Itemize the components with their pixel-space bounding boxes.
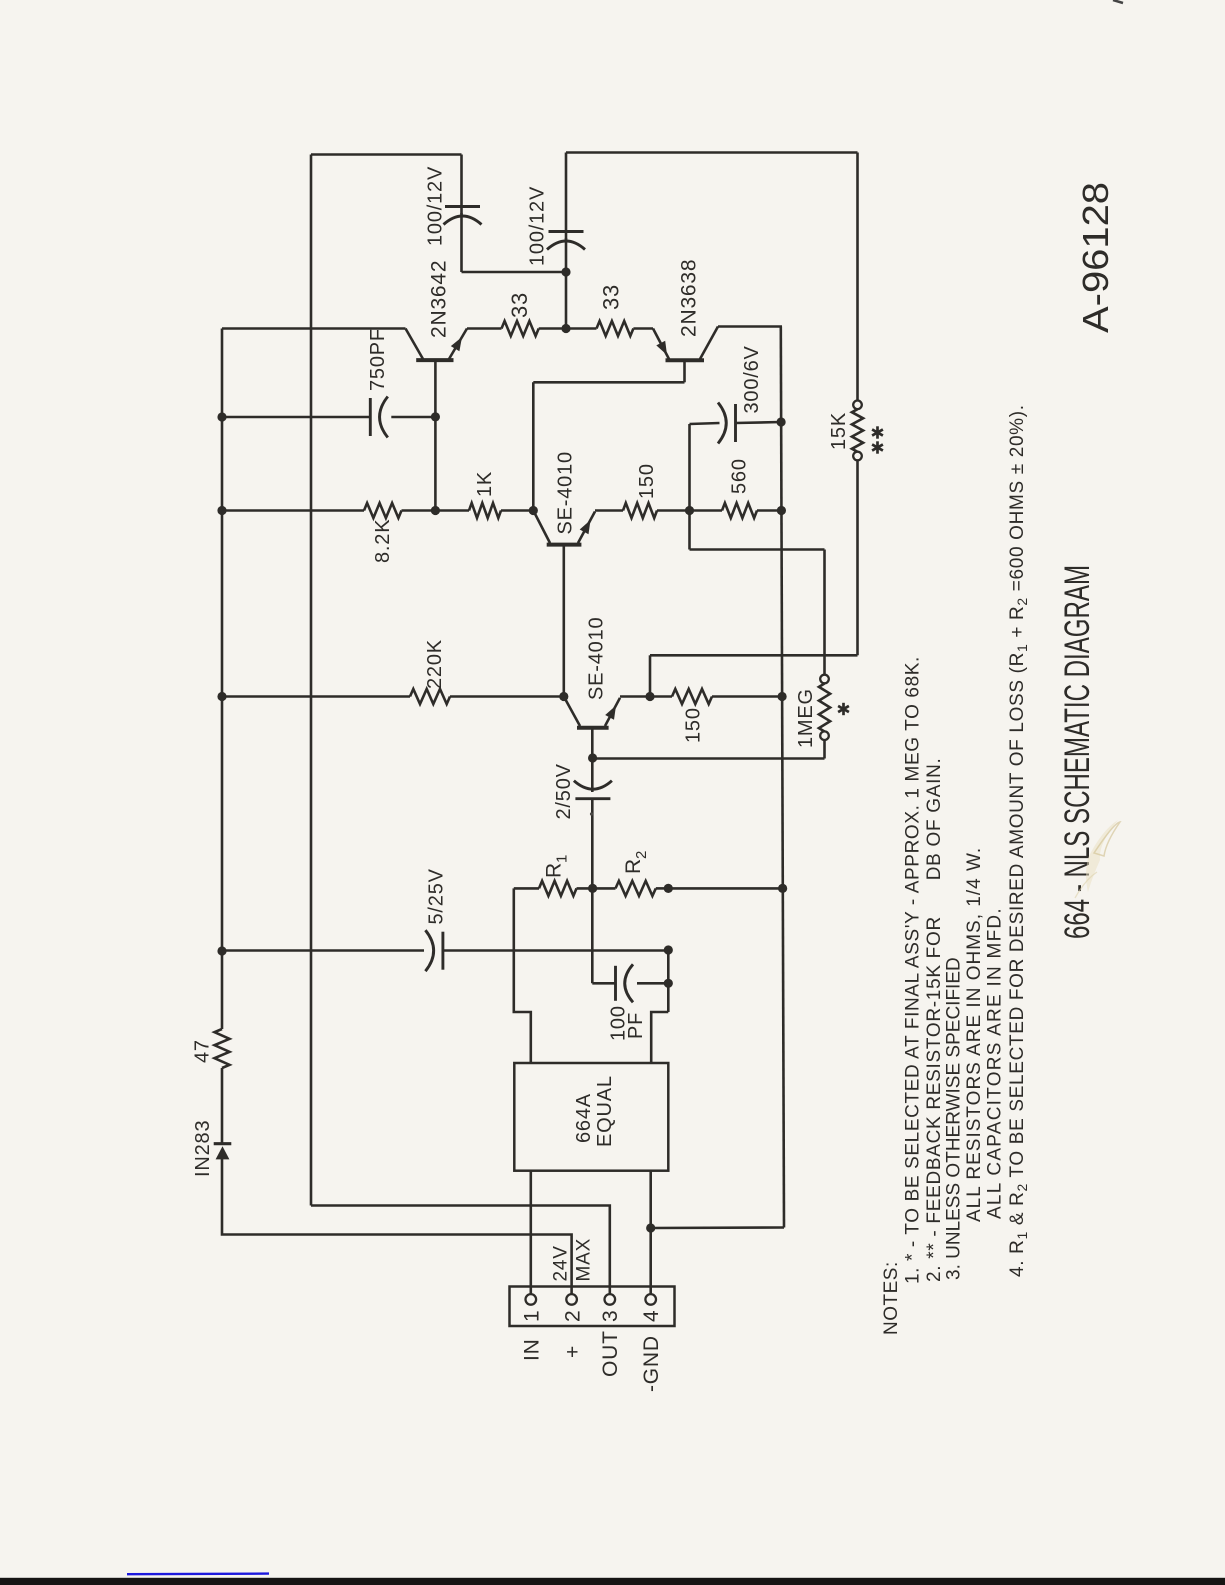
svg-text:1K: 1K [474,471,496,497]
wire +V tap y=510.5 to 8.2K [222,509,364,512]
capacitor 300/6V [734,404,737,442]
wire +V from pin 2 [221,951,224,1029]
pin 4 terminal [645,1294,656,1305]
node 1K left [431,506,440,515]
svg-text:OUT: OUT [599,1330,622,1377]
node R1/R2 junction (2/50V) [588,884,597,893]
wire R-network to attenuator right lead [667,950,670,1012]
svg-text:5/25V: 5/25V [426,868,448,924]
wire attenuator left lead (from R1) [514,888,531,1063]
wire node to 1K [435,509,469,512]
wire 47 to diode [221,1068,224,1143]
resistor 33 (left) [502,321,539,336]
svg-text:560: 560 [729,458,751,494]
resistor 1K [469,503,501,518]
wire 664A right lead to pin 4 [649,1171,652,1295]
node 100PF right [664,979,673,988]
wire 1MEG top leg [688,511,691,550]
svg-text:R: R [622,859,645,874]
svg-text:ALL RESISTORS ARE IN OHMS, 1/4: ALL RESISTORS ARE IN OHMS, 1/4 W. [964,847,985,1222]
wire 100PF to node [637,982,668,985]
node 5/25V gnd [664,945,673,954]
wire 2N3642 collector to +V rail [222,327,406,330]
svg-text:2N3638: 2N3638 [678,259,701,337]
blue mark bottom left [127,1572,269,1575]
wire gnd branch to rail [651,1226,784,1229]
svg-text:664A: 664A [573,1093,595,1143]
transistor Q3 SE-4010 (driver) [547,543,582,547]
wire 8.2K to node [402,509,436,512]
svg-text:220K: 220K [424,639,446,689]
double asterisk mark for 15K [876,426,879,438]
wire C1 to node (y=272) [462,271,567,274]
wire Q1 emitter to 33a [467,327,502,330]
wire 15K bottom leg [856,460,859,655]
svg-text:750PF: 750PF [367,328,389,391]
svg-text:100/12V: 100/12V [527,186,549,266]
wire 560 to gnd rail [757,509,781,512]
svg-text:-GND: -GND [640,1335,663,1392]
capacitor 750PF [369,398,372,436]
wire 33b to Q2 emitter [633,327,653,330]
capacitor C2 100/12V [549,230,584,233]
node C2/C1 junction [561,267,570,276]
node 33/33 output junction [561,324,570,333]
capacitor C1 100/12V [445,205,480,208]
diode IN283 [214,1142,232,1145]
svg-text:664 - NLS SCHEMATIC DIAGRAM: 664 - NLS SCHEMATIC DIAGRAM [1058,565,1097,939]
wire 5/25V to gnd node [442,949,668,952]
svg-text:1: 1 [521,1310,544,1322]
wire R1 left leg [514,887,539,890]
pin 3 terminal [605,1294,616,1305]
wire attenuator right lead jog [651,1012,668,1063]
svg-text:+: + [562,1345,585,1358]
resistor 220K [410,689,450,704]
wire Q4 emitter to node [620,695,650,698]
node 300/6V gnd [777,417,786,426]
wire 1MEG bottom leg [823,740,826,759]
svg-text:EQUAL: EQUAL [594,1075,616,1147]
svg-text:1. * - TO BE SELECTED AT FINAL: 1. * - TO BE SELECTED AT FINAL ASS'Y - A… [903,656,924,1284]
attenuator block 664A EQUAL [514,1063,668,1171]
node +V/8.2K [217,506,226,515]
wire Q2 collector to gnd rail [718,325,782,328]
node Q1 base [431,412,440,421]
svg-text:IN283: IN283 [192,1120,214,1177]
connector strip [510,1287,675,1327]
wire +V tap y=696.5 to 220K [222,695,410,698]
capacitor 2/50V [575,797,610,800]
wire cap C1 top lead [460,155,463,215]
resistor 150 (input emitter) [672,689,712,704]
node Q4 base [588,753,597,762]
svg-text:33: 33 [599,284,624,310]
wire 300/6V to gnd rail [736,422,782,423]
svg-text:3. UNLESS OTHERWISE SPECIFIED: 3. UNLESS OTHERWISE SPECIFIED [944,957,965,1280]
wire 100PF left leg [591,888,594,983]
wire 2/50V bottom lead [591,799,594,889]
node Q4 emitter [645,692,654,701]
wire 150b to gnd rail [712,695,782,698]
svg-text:2/50V: 2/50V [553,763,575,819]
node gnd rail/R network [778,884,787,893]
svg-text:8.2K: 8.2K [372,519,394,563]
wire node to 560 [690,509,723,512]
wire output bus vertical rail [310,155,313,1206]
resistor 33 (right) [597,321,634,336]
svg-text:4. R1 & R2 TO BE SELECTED FOR: 4. R1 & R2 TO BE SELECTED FOR DESIRED AM… [1007,405,1030,1277]
wire C1 bottom lead [460,213,463,272]
wire 1K to Q3 collector node [501,509,533,512]
wire 15K top leg from rail [856,153,859,401]
transistor Q2 2N3638 [666,358,705,362]
svg-text:MAX: MAX [574,1238,595,1282]
svg-text:2: 2 [562,1310,585,1322]
wire R2 to node [656,887,669,890]
svg-text:A-96128: A-96128 [1075,182,1116,333]
pin 1 terminal [526,1294,537,1305]
svg-text:1MEG: 1MEG [795,688,817,748]
wire +V tap y=417 [222,416,370,419]
wire 150a to node [657,509,690,512]
svg-text:100/12V: 100/12V [425,166,447,246]
capacitor 100PF [614,966,617,1001]
node +V/220K [217,692,226,701]
wire output bus to pin 3 [311,1206,610,1296]
wire cap C2 top lead [565,153,568,241]
svg-text:IN: IN [521,1338,544,1361]
wire node to 150b [650,695,672,698]
svg-text:47: 47 [192,1039,214,1063]
wire 664A left lead to pin 1 [529,1171,532,1295]
wire node to 33b [566,327,597,330]
capacitor 5/25V [441,932,444,970]
pin 2 terminal [566,1294,577,1305]
node 560/gnd rail [777,506,786,515]
svg-text:3: 3 [599,1310,622,1322]
wire diode to pin 2 wire [222,1159,572,1296]
svg-text:2. ** - FEEDBACK RESISTOR-15K: 2. ** - FEEDBACK RESISTOR-15K FOR DB OF … [924,757,945,1282]
resistor 1MEG (select) [820,675,829,684]
transistor Q1 2N3642 [416,358,453,362]
scan edge black band bottom [0,1578,1225,1585]
node +V/5/25V [217,946,226,955]
resistor 15K (feedback select) [853,401,862,410]
resistor R2 [616,881,656,896]
wire cap 300/6V left leg [688,424,691,511]
svg-text:R: R [543,863,566,878]
resistor 8.2K [364,503,402,518]
resistor 560 [722,503,757,518]
resistor 150 (driver emitter) [623,503,657,518]
wire C2 bottom lead [565,238,568,329]
svg-text:SE-4010: SE-4010 [586,617,608,700]
wire Q3 emitter to 150a [595,509,623,512]
node pin4/gnd branch [646,1223,655,1232]
svg-text:15K: 15K [828,412,850,450]
asterisk mark for 1MEG [842,703,845,715]
svg-text:2N3642: 2N3642 [428,260,451,338]
svg-text:300/6V: 300/6V [741,345,763,413]
node Q3 collector [529,506,538,515]
wire R2 node to gnd rail [668,887,782,890]
wire 750PF to Q1 base node [391,416,435,419]
scan speck top right [1113,0,1123,3]
resistor R1 [539,881,577,896]
wire ground rail vertical [781,327,784,1228]
wire Q2 base to drive node [533,381,684,384]
wire +V rail (from 47R node, top-left L) with taps [221,329,224,952]
svg-text:24V: 24V [551,1245,572,1281]
node 150b/gnd rail [778,692,787,701]
resistor 47 [215,1029,230,1068]
wire top rail segment B [566,151,858,154]
svg-text:NOTES:: NOTES: [881,1261,902,1335]
svg-text:2: 2 [633,851,650,859]
svg-text:ALL CAPACITORS ARE IN MFD.: ALL CAPACITORS ARE IN MFD. [985,907,1006,1219]
transistor Q4 SE-4010 (input) [577,726,609,730]
svg-text:SE-4010: SE-4010 [555,451,577,534]
svg-text:1: 1 [554,855,571,863]
wire 220K to Q4 base node [450,695,564,698]
node +V/750PF [217,412,226,421]
node Q4 collector / Q3 base [559,692,568,701]
svg-text:4: 4 [640,1310,663,1322]
svg-text:PF: PF [625,1012,647,1039]
wire 33a to node [539,327,566,330]
paper stain near title [1086,820,1118,892]
wire top rail segment A [311,153,462,156]
svg-text:150: 150 [683,707,705,743]
svg-text:150: 150 [636,463,658,499]
node 150a/560/1MEG branch [685,506,694,515]
node R2 right [664,884,673,893]
capacitor 2/50V top lead [591,758,594,792]
wire 5/25V from +V rail [222,949,424,952]
svg-text:33: 33 [507,292,532,318]
